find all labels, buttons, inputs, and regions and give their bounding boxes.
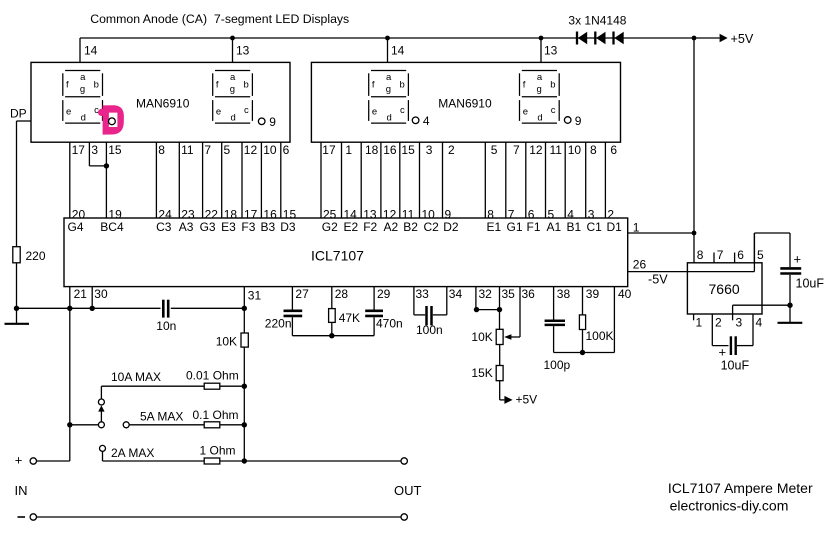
svg-text:g: g (537, 84, 542, 95)
wire U1 pin 6 to ICL7107 pin 15 (D3) (281, 142, 297, 221)
wire U2 pin 2 to ICL7107 pin 9 (D2) (443, 142, 456, 221)
diode D2 1N4148 (595, 32, 605, 45)
svg-text:31: 31 (248, 289, 262, 303)
junction 10A/sense (242, 384, 247, 389)
wire R5 to sense node (220, 385, 245, 387)
wire U2 pin 5 to ICL7107 pin 8 (E1) (485, 142, 497, 221)
resistor R3 15K (471, 345, 503, 381)
wire U2 pin 18 to ICL7107 pin 13 (F2) (361, 142, 378, 221)
svg-text:b: b (244, 80, 249, 91)
wire U1 pin 12 to ICL7107 pin 17 (F3) (242, 142, 258, 221)
capacitor C7 10uF (right) (780, 252, 824, 291)
svg-text:C3: C3 (156, 220, 172, 234)
wire C5 to node (554, 326, 615, 352)
wire U1 pin 11 to ICL7107 pin 23 (A3) (179, 142, 195, 221)
svg-text:4: 4 (756, 316, 763, 330)
svg-text:+: + (794, 252, 802, 267)
wire U3 pin 28 (332, 287, 349, 309)
wire R1 to common bus (16, 263, 18, 309)
svg-text:17: 17 (322, 143, 336, 157)
svg-text:d: d (81, 113, 86, 124)
svg-text:F1: F1 (527, 220, 541, 234)
svg-text:1: 1 (633, 221, 640, 235)
svg-text:2: 2 (715, 316, 722, 330)
svg-text:10uF: 10uF (721, 358, 750, 372)
resistor R5 0.01 Ohm (186, 369, 239, 390)
svg-text:B1: B1 (567, 220, 582, 234)
svg-text:33: 33 (416, 287, 430, 301)
svg-text:c: c (551, 105, 556, 116)
svg-text:14: 14 (84, 44, 98, 58)
svg-text:G1: G1 (507, 220, 523, 234)
U1 decimal point circle (DP) (109, 118, 116, 125)
junction U2 pin13 (539, 36, 544, 41)
wire R2 to node (331, 322, 333, 335)
U4 pin 2 wire (712, 314, 722, 346)
resistor R6 0.1 Ohm (193, 408, 239, 428)
svg-text:16: 16 (383, 143, 397, 157)
svg-text:35: 35 (502, 287, 516, 301)
svg-text:c: c (94, 105, 99, 116)
junction pin30/bus (90, 306, 95, 311)
title label (90, 12, 349, 26)
wire U3 pin 33 (414, 287, 429, 315)
svg-text:+5V: +5V (516, 393, 538, 407)
wire U2 pin 7 to ICL7107 pin 7 (G1) (506, 142, 520, 221)
svg-text:E1: E1 (487, 220, 502, 234)
svg-text:f: f (66, 80, 69, 91)
U1 pin 9 circle (258, 115, 276, 129)
svg-text:b: b (94, 80, 99, 91)
svg-text:7660: 7660 (709, 281, 740, 297)
diode D3 1N4148 (614, 32, 624, 45)
display U1 MAN6910 body (31, 62, 290, 142)
svg-text:G3: G3 (200, 220, 216, 234)
wire display U1 pin 14 stub (80, 38, 98, 62)
svg-text:1: 1 (696, 316, 703, 330)
wire U1 pin 15 to ICL7107 pin 19 (BC4) (106, 142, 122, 221)
U4 pin 5 label (757, 248, 764, 262)
svg-text:5A MAX: 5A MAX (140, 409, 183, 423)
svg-text:7: 7 (717, 248, 724, 262)
svg-text:3: 3 (426, 143, 433, 157)
svg-text:100n: 100n (416, 323, 443, 337)
wire C7 to ground (789, 275, 791, 323)
junction switch pole node (67, 422, 72, 427)
junction int node (329, 333, 334, 338)
svg-text:B3: B3 (261, 220, 276, 234)
svg-text:D2: D2 (443, 220, 459, 234)
svg-text:9: 9 (269, 115, 276, 129)
junction pin1/+5V (692, 231, 697, 236)
wire R7 to OUT (220, 460, 401, 462)
junction pin31/bus (242, 306, 247, 311)
resistor R4 100K (579, 315, 613, 343)
IC U4 7660 body (687, 263, 762, 314)
svg-text:47K: 47K (339, 311, 360, 325)
svg-text:8: 8 (590, 143, 597, 157)
svg-text:13: 13 (544, 44, 558, 58)
svg-text:BC4: BC4 (100, 220, 124, 234)
wire U2 pin 10 to ICL7107 pin 4 (B1) (565, 142, 581, 221)
wire U2 pin 16 to ICL7107 pin 12 (A2) (381, 142, 397, 221)
svg-text:E2: E2 (344, 220, 359, 234)
svg-text:A2: A2 (384, 220, 399, 234)
U4 label 7660 (709, 281, 740, 297)
wire -IN to OUT- (37, 516, 401, 518)
svg-text:29: 29 (377, 287, 391, 301)
wire U2 pin 17 to ICL7107 pin 25 (G2) (321, 142, 337, 221)
svg-text:C2: C2 (424, 220, 440, 234)
wire U3 pin 36 to wiper (504, 287, 535, 340)
svg-text:27: 27 (295, 287, 309, 301)
U2 pin 9 circle (564, 114, 581, 128)
label electronics-diy.com (670, 498, 789, 514)
+5V terminal (top right) (720, 32, 754, 46)
svg-text:D1: D1 (607, 220, 623, 234)
svg-text:6: 6 (610, 143, 617, 157)
svg-text:+: + (719, 345, 727, 360)
svg-text:13: 13 (236, 44, 250, 58)
svg-text:D3: D3 (280, 220, 296, 234)
svg-text:39: 39 (586, 287, 600, 301)
wire U3 pin 26 (-5V) to 7660 pin 5 (628, 233, 755, 272)
ground (left) (5, 308, 30, 324)
svg-text:MAN6910: MAN6910 (136, 96, 190, 110)
U4 pin 8 (wire from +5V) (697, 248, 704, 262)
svg-text:10: 10 (263, 143, 277, 157)
wire U1 pin 8 to ICL7107 pin 24 (C3) (156, 142, 172, 221)
svg-text:10A MAX: 10A MAX (111, 370, 161, 384)
junction pin35 (497, 307, 502, 312)
wire U2 pin 12 to ICL7107 pin 6 (F1) (526, 142, 543, 221)
svg-text:A1: A1 (547, 220, 562, 234)
svg-text:10K: 10K (216, 335, 237, 349)
svg-text:40: 40 (618, 287, 632, 301)
resistor R1 220 (13, 247, 46, 263)
svg-text:a: a (537, 72, 543, 83)
U4 pin 7 tick (714, 248, 724, 263)
svg-text:f: f (523, 80, 526, 91)
svg-text:2: 2 (448, 143, 455, 157)
svg-text:F3: F3 (241, 220, 255, 234)
junction pin21/bus (67, 306, 72, 311)
svg-text:10uF: 10uF (796, 277, 825, 291)
wire U3 pin 35 (500, 287, 516, 330)
diode D1 1N4148 (577, 32, 587, 45)
wire DP from U1 to R-DP (10, 107, 31, 247)
U4 pin 4 wire (753, 314, 763, 346)
svg-text:5: 5 (491, 143, 498, 157)
U2 digit 1 7-segment digit glyph (369, 71, 409, 124)
terminal +IN (15, 452, 37, 467)
terminal OUT+ (401, 458, 407, 464)
svg-text:220: 220 (26, 249, 46, 263)
svg-text:0.1 Ohm: 0.1 Ohm (193, 408, 239, 422)
svg-text:e: e (66, 106, 71, 117)
svg-text:ICL7107 Ampere Meter: ICL7107 Ampere Meter (668, 480, 813, 496)
capacitor C4 100n (416, 306, 443, 337)
wire U3 pin 27 (292, 287, 309, 310)
svg-text:A3: A3 (179, 220, 194, 234)
junction +5V node (692, 36, 697, 41)
wire U3 pin 32 (476, 287, 500, 310)
svg-text:8: 8 (697, 248, 704, 262)
svg-text:10K: 10K (471, 330, 492, 344)
svg-text:0.01 Ohm: 0.01 Ohm (186, 369, 239, 383)
wire C3 to node (373, 317, 375, 336)
label ICL7107 Ampere Meter (668, 480, 813, 496)
svg-text:+5V: +5V (731, 32, 754, 46)
U2 digit 2 7-segment digit glyph (520, 71, 560, 124)
wire U3 pin 31 (244, 287, 261, 333)
junction osc node (580, 350, 585, 355)
label 3x 1N4148 (568, 14, 626, 28)
wire display U2 pin 14 stub (388, 38, 405, 62)
wire U3 pin 34 (433, 287, 463, 315)
svg-text:DP: DP (10, 107, 27, 121)
junction C7/pin3 (787, 303, 792, 308)
svg-text:32: 32 (479, 287, 493, 301)
svg-text:e: e (216, 106, 221, 117)
ground (right) (778, 322, 803, 324)
svg-text:28: 28 (335, 287, 349, 301)
wire U3 pin 29 (374, 287, 391, 310)
svg-text:d: d (231, 113, 236, 124)
potentiometer VR1 10K (471, 329, 503, 344)
svg-text:10: 10 (568, 143, 582, 157)
wire U2 pin 15 to ICL7107 pin 11 (B2) (400, 142, 415, 221)
U4 pin 6 tick (735, 248, 745, 263)
svg-text:3: 3 (736, 316, 743, 330)
svg-text:36: 36 (522, 287, 536, 301)
svg-text:b: b (550, 80, 555, 91)
wire display U1 pin 13 stub (233, 38, 250, 62)
svg-text:10n: 10n (156, 319, 176, 333)
wire sense vertical (243, 347, 245, 461)
net label -5V (648, 273, 668, 287)
junction 5A/sense (242, 422, 247, 427)
wire U1 pin 5 to ICL7107 pin 18 (E3) (222, 142, 238, 221)
svg-text:c: c (244, 105, 249, 116)
svg-text:38: 38 (557, 287, 571, 301)
svg-text:f: f (372, 80, 375, 91)
svg-text:a: a (386, 72, 392, 83)
svg-text:220n: 220n (265, 316, 292, 330)
label IN (15, 483, 28, 498)
U1 label MAN6910 (136, 96, 190, 110)
svg-text:1 Ohm: 1 Ohm (200, 443, 236, 457)
common bus wire (17, 307, 245, 309)
junction U2 pin14 (385, 36, 390, 41)
svg-text:E3: E3 (221, 220, 236, 234)
svg-text:MAN6910: MAN6910 (438, 96, 492, 110)
display U2 MAN6910 body (311, 62, 620, 142)
wire U3 pin 40 (614, 287, 631, 353)
svg-text:d: d (537, 113, 542, 124)
svg-text:G4: G4 (68, 220, 84, 234)
wire C2 to node (292, 317, 374, 336)
svg-text:b: b (400, 80, 405, 91)
U4 pin 3 tick + wire (733, 305, 790, 329)
svg-text:g: g (80, 84, 85, 95)
svg-text:17: 17 (72, 143, 86, 157)
capacitor C6 10uF (bottom) (712, 336, 753, 372)
wire U3 pin 38 (554, 287, 571, 320)
wire 5A row (129, 409, 204, 424)
svg-text:f: f (216, 80, 219, 91)
svg-text:OUT: OUT (394, 483, 422, 498)
svg-text:4: 4 (423, 114, 430, 128)
svg-text:2A MAX: 2A MAX (111, 446, 154, 460)
svg-text:5: 5 (757, 248, 764, 262)
switch contact 2A (100, 445, 106, 451)
svg-text:3x 1N4148: 3x 1N4148 (568, 14, 626, 28)
terminal OUT- (401, 514, 407, 520)
svg-text:1: 1 (345, 143, 352, 157)
junction bus left (14, 306, 19, 311)
svg-text:11: 11 (181, 143, 194, 157)
svg-text:IN: IN (15, 483, 28, 498)
wire U2 pin 8 to ICL7107 pin 3 (C1) (586, 142, 597, 221)
U1 digit 1 7-segment digit glyph (63, 71, 103, 124)
wire U1 pin 17 to ICL7107 pin 20 (G4) (70, 142, 86, 221)
svg-text:7: 7 (513, 143, 520, 157)
wire U3 pin 21 (70, 287, 87, 309)
capacitor C2 220n (265, 311, 302, 331)
svg-text:ICL7107: ICL7107 (311, 247, 364, 263)
svg-text:34: 34 (449, 287, 463, 301)
terminal -IN (18, 514, 37, 520)
svg-text:3: 3 (91, 143, 98, 157)
svg-text:e: e (523, 106, 528, 117)
wire U1 pin 3 to BC4 node (89, 142, 106, 166)
svg-text:8: 8 (158, 143, 165, 157)
capacitor C3 470n (365, 311, 403, 331)
svg-text:6: 6 (737, 248, 744, 262)
wire pin21 node down to +IN (36, 308, 69, 461)
magenta DP annotation mark (98, 105, 124, 134)
svg-text:d: d (387, 113, 392, 124)
svg-text:15: 15 (401, 143, 415, 157)
svg-text:30: 30 (94, 287, 108, 301)
svg-text:12: 12 (244, 143, 258, 157)
junction 2A/sense (242, 458, 247, 463)
svg-text:C1: C1 (587, 220, 603, 234)
svg-text:100K: 100K (586, 329, 614, 343)
wire pole (70, 424, 98, 426)
U3 segment net names (68, 220, 623, 234)
resistor R7 1 Ohm (200, 443, 236, 464)
capacitor C1 10n (156, 300, 176, 333)
wire U3 pin 1 to +5V (628, 221, 694, 235)
+5V terminal (bottom) (500, 381, 537, 407)
svg-text:5: 5 (224, 143, 231, 157)
junction pin32 (474, 307, 479, 312)
svg-text:15: 15 (108, 143, 122, 157)
wire 10A row (101, 370, 204, 399)
svg-text:a: a (230, 72, 236, 83)
svg-text:26: 26 (633, 257, 647, 271)
wire R6 to sense node (220, 424, 245, 426)
svg-text:G2: G2 (322, 220, 338, 234)
U4 pin 1 tick (694, 314, 703, 330)
svg-text:6: 6 (283, 143, 290, 157)
wire U4 pin5 to C7 (754, 233, 790, 267)
svg-text:14: 14 (391, 44, 405, 58)
svg-text:11: 11 (550, 143, 563, 157)
wire U2 pin 3 to ICL7107 pin 10 (C2) (420, 142, 436, 221)
svg-text:Common Anode (CA) 7-segment L: Common Anode (CA) 7-segment LED Displays (90, 12, 349, 26)
wire R4 to node (582, 330, 584, 353)
svg-text:g: g (230, 84, 235, 95)
svg-text:470n: 470n (376, 316, 403, 330)
wire U2 pin 1 to ICL7107 pin 14 (E2) (342, 142, 358, 221)
wire U1 pin 7 to ICL7107 pin 22 (G3) (203, 142, 219, 221)
resistor R8 10K (216, 333, 249, 349)
svg-text:g: g (386, 84, 391, 95)
label OUT (394, 483, 422, 498)
junction BC4 (104, 163, 109, 168)
wire 2A row (103, 446, 205, 461)
svg-text:18: 18 (365, 143, 379, 157)
wire U2 pin 11 to ICL7107 pin 5 (A1) (546, 142, 563, 221)
U1 digit 2 7-segment digit glyph (213, 71, 253, 124)
wire U3 pin 30 (92, 287, 108, 309)
svg-text:B2: B2 (403, 220, 418, 234)
svg-text:12: 12 (529, 143, 543, 157)
svg-text:e: e (372, 106, 377, 117)
switch contact 10A (98, 399, 104, 405)
wire display U2 pin 13 stub (541, 38, 558, 62)
svg-text:c: c (400, 105, 405, 116)
switch SW1 pole + wiper arrow (98, 405, 104, 427)
wire U1 pin 10 to ICL7107 pin 16 (B3) (261, 142, 277, 221)
wire +5V top rail (80, 38, 720, 263)
svg-text:100p: 100p (544, 358, 571, 372)
svg-text:21: 21 (74, 287, 88, 301)
U3 label ICL7107 (311, 247, 364, 263)
wire U2 pin 6 to ICL7107 pin 2 (D1) (605, 142, 617, 221)
svg-text:electronics-diy.com: electronics-diy.com (670, 498, 789, 514)
resistor R2 47K (329, 309, 360, 325)
svg-text:a: a (80, 72, 86, 83)
wire U3 pin 39 (583, 287, 600, 315)
U2 pin 4 circle (412, 114, 430, 128)
svg-text:F2: F2 (363, 220, 377, 234)
U2 label MAN6910 (438, 96, 492, 110)
svg-text:9: 9 (575, 114, 582, 128)
op-amp/IC U3 ICL7107 body (64, 218, 628, 287)
switch contact 5A (123, 422, 129, 428)
svg-text:7: 7 (204, 143, 211, 157)
svg-text:+: + (15, 452, 23, 467)
svg-text:15K: 15K (471, 366, 492, 380)
svg-text:-5V: -5V (648, 273, 668, 287)
junction U1 pin13 (230, 36, 235, 41)
capacitor C5 100p (544, 321, 571, 372)
